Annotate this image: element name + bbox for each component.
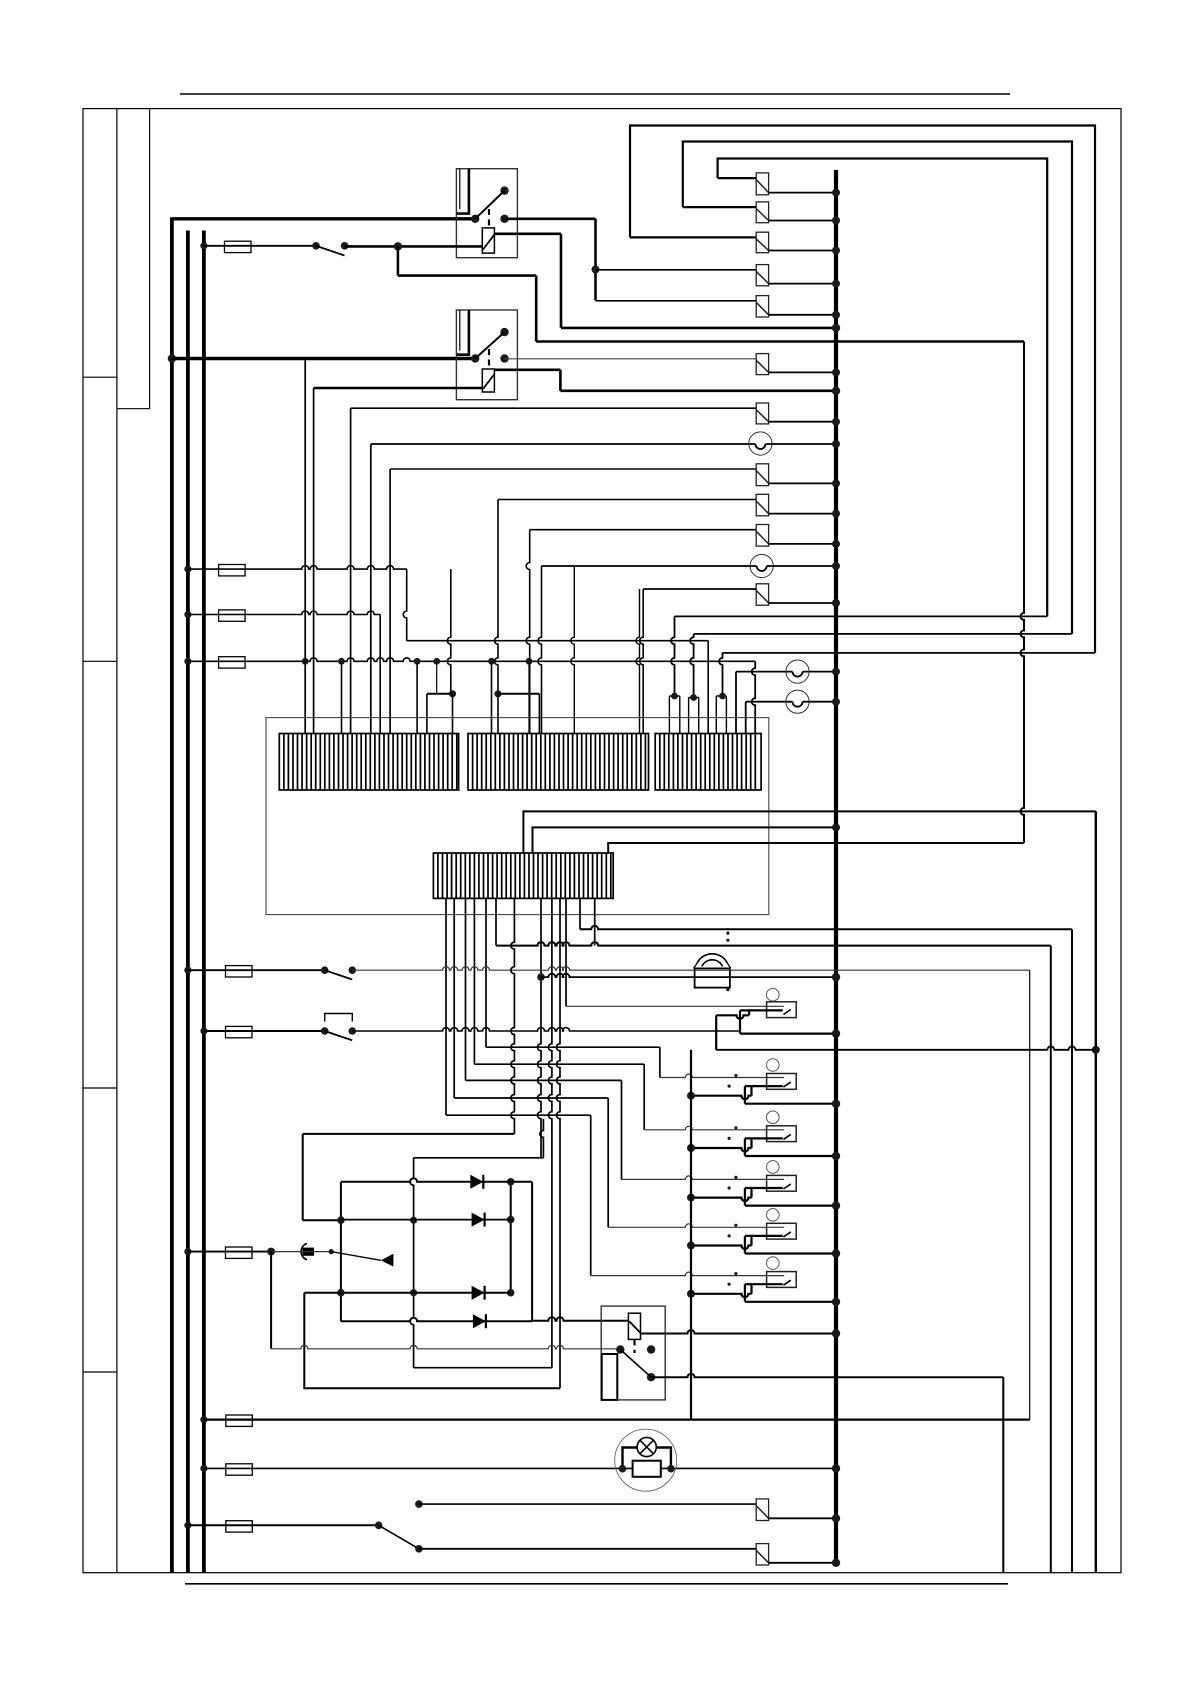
wire Wd1 to rail — [303, 1219, 341, 1221]
wire rail1 to K1 common — [172, 217, 475, 220]
junction staircase U5 — [687, 1242, 695, 1250]
wire C9 feed down — [526, 530, 530, 734]
wire F5 — [188, 969, 325, 971]
relay K3 blade — [620, 1350, 651, 1378]
wire X4 drop d — [473, 898, 475, 1064]
fuse F10 — [226, 1521, 253, 1532]
wire F7 to blade — [271, 1251, 331, 1253]
wire X4 drop l — [565, 898, 567, 1006]
title block partition c — [83, 660, 117, 662]
wire lamp L1 feed down — [370, 444, 372, 734]
wire C7 exit to bus — [769, 482, 836, 484]
switch U6 blade — [783, 1280, 790, 1285]
relay K2 coil — [482, 369, 494, 392]
page bottom rule — [185, 1583, 1008, 1585]
wire U2 step connector — [750, 1086, 752, 1096]
diode left rail — [340, 1182, 342, 1321]
wire lamp L4 from X3 — [745, 702, 747, 734]
relay K3 actuator link — [633, 1339, 635, 1353]
switch U4 blade — [783, 1184, 790, 1189]
wire right drop 1096 — [1095, 811, 1097, 1572]
wire feeder U6 — [446, 1114, 591, 1116]
junction rail2 F7 — [184, 1248, 191, 1255]
diode D1 — [470, 1175, 483, 1189]
wire fork left feed — [447, 569, 450, 694]
wire C9 feed — [530, 529, 757, 531]
junction bus L2 — [832, 562, 840, 570]
switch unit U4 pilot circle — [767, 1161, 780, 1174]
wire K2 coil in — [314, 387, 483, 390]
battery rail 3 — [202, 231, 206, 1573]
wire K2 coil out — [494, 368, 560, 371]
wire F9 — [204, 1467, 836, 1469]
wire C6 exit to bus — [769, 371, 836, 373]
wire S1 output step2 — [716, 1015, 749, 1019]
title block partition a — [83, 376, 117, 378]
junction bus 391 — [832, 387, 840, 395]
wire lamp L3 b — [803, 671, 837, 673]
fork P1 feed — [671, 616, 675, 696]
wire lamp L4 b — [803, 701, 837, 703]
wire K2 output thin — [505, 358, 757, 360]
diode D4 — [473, 1314, 486, 1328]
wire loop B to connector C2 — [683, 206, 756, 208]
switch SW4 contact up — [415, 1500, 423, 1508]
page top rule — [180, 93, 1010, 95]
wire feeder drop U3 — [643, 1064, 645, 1130]
wire F8 long — [204, 1418, 1030, 1420]
relay K1 terminal bracket — [457, 169, 469, 214]
wire U2 output left — [691, 1096, 752, 1100]
junction K1 out branch — [592, 266, 600, 274]
wire F6 switched — [352, 1028, 740, 1032]
wire C3 exit to bus — [769, 250, 836, 252]
wire loop B — [683, 142, 1072, 634]
junction 1096 — [1092, 1046, 1100, 1054]
horn arc tick left — [694, 963, 697, 968]
switch unit U2 box — [767, 1074, 797, 1090]
junction bus K3 — [832, 1329, 840, 1337]
wire K3 output down — [1002, 1377, 1004, 1573]
junction bus U6 — [832, 1298, 840, 1306]
relay K3 terminal bracket — [602, 1354, 618, 1400]
wire F4 pin f — [528, 661, 530, 733]
connector C5 — [756, 296, 768, 317]
connector C7 — [756, 464, 768, 486]
junction mid rail a — [410, 1217, 417, 1224]
junction F4 c — [414, 658, 421, 665]
wire U3 rail down — [744, 1138, 746, 1156]
switch SW3 contact b — [349, 1027, 357, 1035]
wire lamp L3 a — [736, 671, 793, 673]
wire U5 rail down — [744, 1236, 746, 1254]
junction rail2 F2 — [184, 566, 191, 573]
junction staircase U3 — [687, 1144, 695, 1152]
wire F5 switched — [352, 967, 1029, 971]
wire U3 step connector — [750, 1138, 752, 1148]
wire F5 down right — [1029, 970, 1031, 1419]
horn symbol — [381, 1254, 394, 1267]
ECU control unit box — [266, 718, 769, 915]
relay K2 output contact — [500, 354, 508, 362]
wire right drop 1072 — [1071, 929, 1073, 1572]
junction bus C9 — [832, 540, 840, 548]
wire U6 rail down — [744, 1284, 746, 1302]
wire SW4 up to C11 — [419, 1503, 756, 1505]
wire U2 entry — [660, 1074, 784, 1078]
title block partition e — [83, 1371, 117, 1373]
wire to connector C4 — [596, 269, 757, 271]
wire C10 feed — [643, 588, 756, 590]
wire C5 exit to bus — [769, 314, 836, 316]
fork P3 — [716, 696, 726, 734]
fork P2 dot — [690, 694, 697, 701]
relay K1 common contact — [471, 215, 479, 223]
battery rail 1 — [170, 217, 174, 1572]
wire U4 entry — [622, 1176, 785, 1180]
connector C12 — [756, 1544, 768, 1565]
wire U5 step connector — [750, 1236, 752, 1246]
connector C9 — [756, 525, 768, 547]
wire C6a exit to bus — [769, 421, 836, 423]
wire C1 exit to bus — [769, 192, 836, 194]
fuse F6 — [226, 1026, 253, 1037]
junction bus C4 — [832, 280, 840, 288]
wire staircase — [690, 1050, 692, 1420]
wire J1 right — [398, 274, 536, 277]
relay K2 actuator link — [488, 349, 490, 368]
switch SW4 common — [375, 1522, 383, 1530]
wire U2 to bus — [745, 1103, 836, 1105]
junction bus C5 — [832, 311, 840, 319]
wire feeder drop U2 — [659, 1047, 661, 1077]
diode D3 — [472, 1286, 485, 1300]
junction staircase U2 — [687, 1092, 695, 1100]
mark U6 pin2 — [728, 1283, 731, 1286]
junction rail2 F5 — [184, 967, 191, 974]
switch SW4 contact dn — [415, 1545, 423, 1553]
mark U4 pin — [734, 1176, 737, 1179]
title block partition b — [117, 408, 150, 410]
page border frame — [83, 109, 1121, 1573]
wire U6 entry — [591, 1272, 784, 1275]
wire U4 step connector — [750, 1188, 752, 1198]
connector C4 — [756, 265, 768, 286]
junction bus C6 — [832, 368, 840, 376]
wire U4 rail down — [744, 1188, 746, 1206]
title block divider v2 — [149, 109, 151, 409]
junction left rail a — [337, 1216, 345, 1224]
lamp L2 — [750, 554, 773, 577]
connector C6a — [756, 403, 768, 424]
diode out rail — [510, 1182, 512, 1293]
junction out rail c — [507, 1289, 515, 1297]
switch U2 blade — [783, 1082, 790, 1087]
relay K3 output contact — [647, 1373, 655, 1381]
mark U3 pin2 — [728, 1137, 731, 1140]
connector comb ECU X3 — [655, 734, 761, 791]
switch SW1 contact a — [312, 242, 320, 250]
wire S1 output down — [715, 1015, 717, 1050]
switch U3 blade — [783, 1134, 790, 1139]
mark U2 pin — [734, 1074, 737, 1077]
switch SW2 contact a — [321, 966, 329, 974]
wire diode row 1 — [341, 1178, 532, 1182]
wire feeder drop U4 — [621, 1080, 623, 1179]
wire mid rail top — [414, 1157, 544, 1159]
wire F6 — [204, 1030, 325, 1032]
wire lamp L3 from X3 — [735, 672, 737, 734]
wire U5 output step — [745, 1235, 783, 1237]
wire diode row 3 — [304, 1292, 510, 1294]
junction bus 327 — [832, 324, 840, 332]
title block partition d — [83, 1087, 117, 1089]
junction L5 right — [667, 1465, 675, 1473]
wire to ECU X1 pin1 — [304, 359, 306, 734]
wire X4 riser 3 — [608, 843, 1024, 853]
junction bus L1 — [832, 440, 840, 448]
junction bus L3 — [832, 668, 840, 676]
wire loop A to connector C3 — [630, 236, 756, 238]
wire F4 pin e — [491, 661, 493, 733]
wire H2 down to ECU X3 — [752, 661, 756, 733]
wire S1 long to 1096 — [716, 1046, 1096, 1050]
wire F10 — [188, 1524, 379, 1526]
wire feeder U4 — [466, 1079, 622, 1081]
wire loop C to connector C1 — [718, 177, 757, 179]
lamp L1 — [749, 432, 772, 455]
wire F3 — [188, 611, 380, 614]
wire C11 exit — [769, 1517, 836, 1519]
switch unit U6 pilot circle — [767, 1257, 780, 1270]
wire F3 down to ECU X1 — [379, 615, 381, 734]
wire feeder U5 — [454, 1097, 608, 1099]
wire F7 down — [270, 1252, 272, 1349]
lamp L5 bulb — [637, 1437, 656, 1456]
connector C3 — [756, 232, 768, 253]
wire SW4 dn to C12 — [419, 1548, 756, 1550]
switch SW2 contact b — [349, 966, 357, 974]
wire X4 drop g — [579, 898, 581, 929]
horn blade pivot — [329, 1249, 334, 1254]
connector C8 — [756, 494, 768, 516]
junction F4 a — [302, 658, 309, 665]
mark U4 pin2 — [728, 1186, 731, 1189]
wire lamp L2 feed down — [538, 566, 542, 734]
wire S1 to bus — [740, 1032, 836, 1034]
switch SW3 bracket — [325, 1014, 353, 1022]
wire F7 — [188, 1251, 271, 1253]
wire 1024 drop — [1021, 342, 1024, 844]
connector C1 — [756, 173, 768, 195]
wire diode row 2 — [341, 1219, 511, 1221]
junction out rail b — [507, 1216, 515, 1224]
fork P1 dot — [671, 693, 678, 700]
wire K1 coil out to bus — [561, 327, 836, 330]
wire F7 to K3 contact — [271, 1345, 620, 1349]
junction bus U3 — [832, 1152, 840, 1160]
wire K3 coil out to bus — [641, 1330, 837, 1333]
relay K3 coil — [628, 1313, 640, 1339]
fuse F5 — [226, 966, 253, 977]
wire U4 output step — [745, 1187, 783, 1189]
junction F4 e — [488, 658, 495, 665]
switch unit U3 pilot circle — [767, 1111, 780, 1124]
junction L5 left — [619, 1465, 627, 1473]
wire F4 pin b — [341, 661, 343, 733]
wire K3 output — [651, 1374, 1003, 1378]
connector comb ECU X4 — [433, 853, 613, 898]
horn button pad — [303, 1248, 315, 1256]
lamp L2 filament dip — [757, 566, 767, 571]
wire speaker 1 — [580, 926, 1072, 930]
wire W2 — [694, 633, 1072, 635]
wire X4 riser 1 — [523, 811, 1095, 853]
lamp L3 — [786, 660, 809, 683]
mark U5 pin2 — [728, 1234, 731, 1237]
wire F2 — [188, 566, 407, 569]
wire C7 feed — [390, 468, 756, 470]
switch SW3 contact a — [321, 1027, 329, 1035]
wire X4 riser 2 — [533, 827, 837, 853]
wire C4 exit to bus — [769, 283, 836, 285]
mark U5 pin — [734, 1224, 737, 1227]
wire U5 output left — [691, 1246, 752, 1250]
relay K3 box — [601, 1306, 665, 1400]
junction bus 827 — [832, 823, 840, 831]
relay K2 NO contact — [500, 328, 508, 336]
junction rail3 F9 — [200, 1465, 207, 1472]
wire X4 drop h — [594, 898, 596, 929]
mark U2 pin2 — [728, 1085, 731, 1088]
junction F4 d — [433, 658, 440, 665]
resistor R1 — [633, 1461, 661, 1477]
horn button arc — [301, 1244, 307, 1260]
wire C8 feed down — [495, 500, 498, 694]
junction rail3 F6 — [200, 1027, 207, 1034]
junction rail2 F3 — [184, 611, 191, 618]
junction mid rail b — [410, 1289, 417, 1296]
wire J1 down2 — [535, 276, 538, 342]
junction bus U5 — [832, 1249, 840, 1257]
fork P2 — [689, 698, 699, 734]
wire U6 step connector — [750, 1284, 752, 1294]
wire U3 entry — [644, 1126, 784, 1130]
diode D2 — [472, 1213, 485, 1227]
wire U4 to bus — [745, 1204, 836, 1206]
fork bar right — [498, 693, 539, 695]
lamp L5 enclosure — [615, 1429, 677, 1491]
horn arc tick right — [727, 963, 730, 968]
wire X4 drop b — [453, 898, 455, 1098]
wire lamp L1 feed — [371, 443, 756, 445]
connector comb ECU X1 — [279, 734, 458, 791]
horn sound arc inner — [702, 960, 723, 967]
wire X2 pin 574 — [571, 566, 574, 734]
switch SW4 blade — [379, 1525, 419, 1549]
junction left rail b — [337, 1289, 345, 1297]
wire lamp L2 feed — [542, 565, 757, 567]
switch unit S1 box — [767, 1002, 797, 1018]
relay K1 terminal bracket inner — [459, 169, 461, 209]
wire K1 coil out down — [560, 234, 563, 328]
switch unit U3 box — [767, 1126, 797, 1142]
fuse F2 — [219, 565, 246, 576]
switch unit U2 pilot circle — [767, 1059, 780, 1072]
wire C2 exit to bus — [769, 220, 836, 222]
wire lock motor loop b — [414, 1367, 552, 1369]
junction bus C3 — [832, 247, 840, 255]
wire to connector C5 — [596, 300, 757, 302]
wire K2 coil out jog — [559, 370, 562, 391]
junction bus C8 — [832, 510, 840, 518]
lamp L3 filament dip — [793, 672, 803, 677]
wire K1 output — [505, 218, 596, 221]
fork bar left leg b — [452, 694, 454, 734]
wire S1 entry — [566, 1005, 784, 1007]
wire diode row 4 — [341, 1318, 532, 1322]
switch SW1 contact b — [341, 242, 349, 250]
junction horn feed — [537, 973, 545, 981]
wire lamp L2 to bus — [767, 565, 836, 567]
wire U2 rail down — [744, 1086, 746, 1104]
fork P3 dot — [719, 693, 726, 700]
wire C6a feed down — [350, 408, 352, 733]
wire speaker 2 — [496, 942, 1051, 945]
relay K3 common contact — [616, 1345, 624, 1353]
switch unit U5 box — [767, 1223, 797, 1239]
connector C11 — [756, 1499, 768, 1521]
wire feeder U3 — [474, 1063, 644, 1065]
wire J1 to right side — [536, 340, 1024, 343]
wire lamp L1 to bus — [765, 443, 836, 445]
wire F4 pin d — [436, 661, 438, 694]
switch SW3 blade — [325, 1031, 353, 1040]
wire W1 — [675, 615, 1048, 617]
wire diodes to K3 coil — [531, 1182, 533, 1321]
lamp L4 — [786, 690, 809, 713]
wire F2 down — [403, 569, 406, 641]
wire U6 to bus — [745, 1301, 836, 1303]
wire S1 output step — [740, 1009, 783, 1011]
wire C7 feed down — [389, 469, 391, 734]
fuse F1 — [225, 241, 252, 252]
wire Wd1 drop — [302, 1134, 304, 1220]
fuse F7 — [226, 1247, 253, 1258]
relay K1 coil — [482, 228, 494, 253]
mark pin b — [726, 939, 729, 942]
wire U2 output step — [745, 1085, 783, 1087]
title block divider v1 — [116, 109, 118, 1573]
wire loop C — [718, 159, 1048, 617]
wire U3 to bus — [745, 1155, 836, 1157]
junction bus C12 — [832, 1559, 840, 1567]
wire K1 coil out — [494, 233, 561, 236]
switch unit U6 box — [767, 1272, 797, 1288]
wire feeder U2 — [486, 1046, 660, 1048]
wire C8 feed to X2 — [497, 694, 499, 734]
wire C8 exit to bus — [769, 513, 836, 515]
junction fork bar left — [449, 690, 456, 697]
switch SW1 blade — [316, 246, 345, 256]
switch SW2 blade — [325, 970, 353, 979]
switch U5 blade — [783, 1232, 790, 1237]
wire W3 — [723, 652, 1096, 654]
relay K2 coil diagonal — [483, 374, 494, 389]
relay K1 NO contact — [500, 186, 508, 194]
connector C10 — [756, 584, 768, 605]
wire C6a feed — [351, 407, 757, 409]
